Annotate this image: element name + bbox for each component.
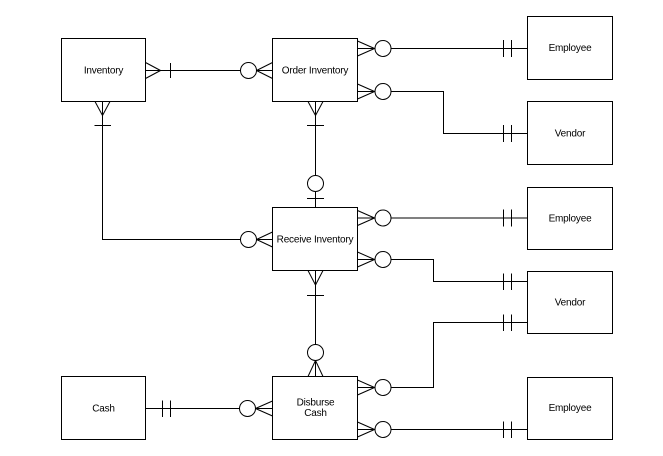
relationship circle Inventory/Order: [241, 63, 257, 79]
svg-text:Vendor: Vendor: [555, 298, 586, 309]
svg-text:Receive Inventory: Receive Inventory: [277, 235, 354, 246]
svg-text:Employee: Employee: [549, 43, 593, 54]
crow's foot at Disburse Cash right-top: [358, 380, 375, 395]
svg-text:Disburse: Disburse: [297, 398, 335, 409]
entity Employee (top): [528, 17, 613, 80]
crow's foot at Order Inventory left: [257, 63, 273, 79]
relationship circle Receive/Vendor: [375, 252, 391, 268]
wire Disburse Cash to Vendor (lower): [391, 323, 528, 388]
crow's foot at Order Inventory right-top: [358, 41, 375, 56]
wire Receive Inventory to Vendor (lower): [391, 260, 528, 282]
crow's foot at Receive Inventory right-bottom: [358, 252, 375, 267]
entity Receive Inventory: [273, 208, 358, 271]
wire Disburse Cash to Employee (bottom): [391, 429, 528, 431]
double tick near Cash: [163, 401, 171, 418]
cardinality tick below Receive Inventory: [307, 295, 324, 297]
crow's foot at Disburse Cash right-bottom: [358, 422, 375, 437]
relationship circle Order/Vendor: [375, 84, 391, 100]
double tick near Vendor (lower) upper wire: [504, 274, 512, 291]
entity Inventory: [62, 39, 146, 102]
crow's foot at Receive Inventory left: [257, 232, 273, 247]
wire Cash to Disburse Cash: [146, 408, 273, 410]
svg-text:Inventory: Inventory: [84, 66, 124, 77]
svg-text:Employee: Employee: [549, 214, 593, 225]
double tick near Vendor (lower) lower wire: [504, 315, 512, 332]
relationship circle Disburse/Vendor: [375, 380, 391, 396]
crow's foot at Inventory bottom: [95, 102, 110, 116]
crow's foot at Order Inventory right-bottom: [358, 84, 375, 99]
svg-text:Employee: Employee: [549, 403, 593, 414]
svg-text:Vendor: Vendor: [555, 129, 586, 140]
wire Receive Inventory to Disburse Cash: [315, 285, 317, 345]
crow's foot at Disburse Cash left: [256, 401, 273, 416]
relationship circle Receive/Disburse: [308, 345, 324, 361]
relationship circle Cash/Disburse: [240, 401, 256, 417]
double tick near Employee (middle): [504, 210, 512, 227]
entity Employee (bottom): [528, 378, 613, 440]
crow's foot at Order Inventory bottom: [308, 102, 323, 116]
double tick near Employee (bottom): [504, 422, 512, 439]
relationship circle Receive/Employee: [375, 210, 391, 226]
relationship circle Disburse/Employee: [375, 422, 391, 438]
cardinality tick below Inventory: [95, 125, 112, 127]
wire Order Inventory to Vendor (upper): [391, 92, 528, 134]
cardinality tick below Order Inventory: [307, 125, 324, 127]
cardinality tick near Inventory: [170, 63, 172, 78]
entity Cash: [62, 377, 146, 440]
wire Receive Inventory to Employee (middle): [391, 217, 528, 219]
svg-text:Cash: Cash: [304, 408, 327, 419]
relationship circle Order/Receive: [308, 176, 324, 192]
relationship circle Inventory/Receive: [241, 232, 257, 248]
wire Inventory to Order Inventory: [161, 70, 273, 72]
crow's foot at Receive Inventory bottom: [308, 271, 323, 286]
svg-text:Cash: Cash: [92, 404, 115, 415]
crow's foot at Receive Inventory right-top: [358, 211, 375, 226]
entity Order Inventory: [273, 39, 358, 102]
double tick near Vendor (upper): [504, 125, 512, 142]
entity Employee (middle): [528, 188, 613, 250]
entity Disburse Cash: [273, 377, 358, 440]
crow's foot at Inventory right: [146, 63, 161, 79]
wire Order Inventory to Employee (top): [391, 48, 528, 50]
wire Order Inventory to Receive Inventory: [315, 116, 317, 208]
entity Vendor (lower): [528, 272, 613, 334]
svg-text:Order Inventory: Order Inventory: [282, 66, 349, 77]
cardinality tick above Receive Inventory: [307, 198, 324, 200]
double tick near Employee (top): [504, 40, 512, 57]
entity Vendor (upper): [528, 102, 613, 165]
crow's foot at Disburse Cash top: [308, 361, 323, 377]
wire Inventory to Receive Inventory: [103, 116, 241, 240]
relationship circle Order/Employee: [375, 41, 391, 57]
